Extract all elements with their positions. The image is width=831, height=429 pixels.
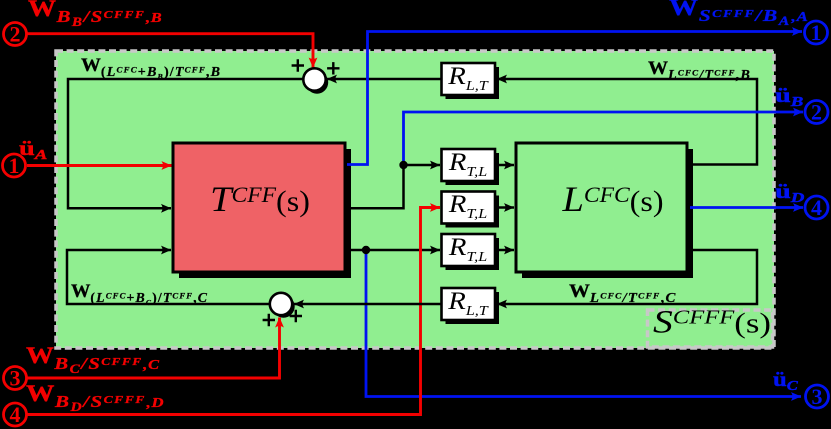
svg-text:1: 1 [811, 20, 822, 45]
svg-text:3: 3 [10, 366, 21, 391]
svg-text:2: 2 [10, 22, 21, 47]
svg-text:4: 4 [811, 195, 822, 220]
svg-text:3: 3 [812, 384, 823, 409]
svg-text:4: 4 [10, 402, 21, 427]
svg-text:1: 1 [9, 153, 20, 178]
svg-text:2: 2 [811, 100, 822, 125]
